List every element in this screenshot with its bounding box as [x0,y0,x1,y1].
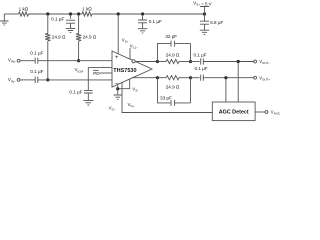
svg-text:0.1 µF: 0.1 µF [30,51,43,56]
svg-text:1 kΩ: 1 kΩ [82,7,92,12]
svg-text:33 pF: 33 pF [160,95,172,100]
svg-text:THS7530: THS7530 [113,68,136,74]
terminal Vin+ [17,59,20,62]
pin VG- wire to ground [117,84,119,94]
svg-text:0.1 µF: 0.1 µF [149,19,162,24]
svg-text:1 kΩ: 1 kΩ [19,7,29,12]
wire Vin+ to amp [38,60,112,62]
svg-text:AGC Detect: AGC Detect [219,110,249,116]
terminal Vagc [265,111,268,114]
capacitor C-bias 0.1uF [70,14,72,19]
svg-text:+: + [115,55,119,61]
wire out+ row2 [132,77,158,79]
pin VS+ wire [117,14,119,54]
op-amp U1 THS7530 triangle [112,51,152,87]
node supply entry [203,12,206,15]
node out1-right [189,60,192,63]
wire rail right (5V) [92,13,205,15]
node AGC tap 2 [224,76,227,79]
PD overline bar [93,69,98,71]
capacitor C-in+ 0.1uF [35,58,38,64]
node VS+ tap [117,12,120,15]
capacitor C-in- 0.1uF [35,77,38,83]
ground under C-icm [83,101,93,105]
capacitor C-bulk 6.8uF [204,14,206,21]
wire AGC out [255,111,265,113]
node out2-right [189,76,192,79]
wire AGC tap2 down [225,78,227,102]
resistor R3 24.9 Ohm (to Vin- line) [47,14,49,34]
terminal Vout- [254,60,257,63]
svg-text:33 pF: 33 pF [165,34,177,39]
wire VICM pin [88,66,112,68]
svg-text:0.1 µF: 0.1 µF [194,66,207,71]
ground under C-decap [138,29,147,33]
ground under VG- [114,95,122,99]
wire Vin+ to cap [20,60,35,62]
wire Vin- to cap [20,79,35,81]
wire row2 to terminal [203,77,253,79]
output bubble (inverting) [132,60,135,63]
ground under C-bias [66,28,75,32]
AGC Detect box [212,102,255,121]
wire rail left [4,13,18,15]
svg-text:24.9 Ω: 24.9 Ω [52,35,66,40]
wire rail mid [29,13,83,15]
supply bar VS+ = 5V [200,7,209,15]
node bias-right [77,12,80,15]
resistor R4 24.9 Ohm (to Vin+ line) [78,14,80,34]
wire VICM down [87,67,89,90]
node AGC tap 1 [237,60,240,63]
capacitor C6 33 pF bypass loop [158,78,191,103]
capacitor C-decap 0.1uF [142,14,144,20]
ground G1 (top-left) [3,14,5,21]
resistor R5 24.9 Ohm [158,61,167,63]
node out1-left [156,60,159,63]
ground under C-bulk [200,30,209,34]
capacitor C5 33 pF bypass loop [158,44,191,62]
svg-text:VS+ = 5 V: VS+ = 5 V [193,0,211,6]
svg-text:PD: PD [93,71,100,76]
svg-text:24.9 Ω: 24.9 Ω [166,53,180,58]
node bias-left [46,12,49,15]
resistor R1 1 kOhm [19,12,29,16]
node decap 0.1uF [141,12,144,15]
svg-text:24.9 Ω: 24.9 Ω [83,35,97,40]
svg-text:6.8 µF: 6.8 µF [210,20,223,25]
capacitor C8 0.1uF series [191,77,200,79]
svg-text:0.1 µF: 0.1 µF [30,69,43,74]
node bias-cap [69,12,72,15]
resistor R6 24.9 Ohm [158,77,167,79]
pin VS- wire [118,79,130,89]
resistor R2 1 kOhm [82,12,92,16]
svg-text:24.9 Ω: 24.9 Ω [166,85,180,90]
svg-text:0.1 µF: 0.1 µF [193,52,206,57]
pin VCL- stub [129,48,131,59]
wire Vin- to amp [38,79,112,81]
wire AGC tap1 down [237,62,239,103]
terminal Vin- [17,79,20,82]
wire out- row1 [135,61,157,63]
terminal Vout+ [254,76,257,79]
wire row1 to terminal [203,61,253,63]
svg-text:0.1 µF: 0.1 µF [69,89,82,94]
capacitor C-icm 0.1uF [84,90,93,93]
node VS-/VG- join [116,87,119,90]
svg-text:0.1 µF: 0.1 µF [51,16,64,21]
svg-text:−: − [115,82,119,88]
pin VG+ wire to AGC [122,83,212,113]
capacitor C7 0.1uF series [191,61,200,63]
wire PD to amp [100,72,113,74]
node out2-left [156,76,159,79]
